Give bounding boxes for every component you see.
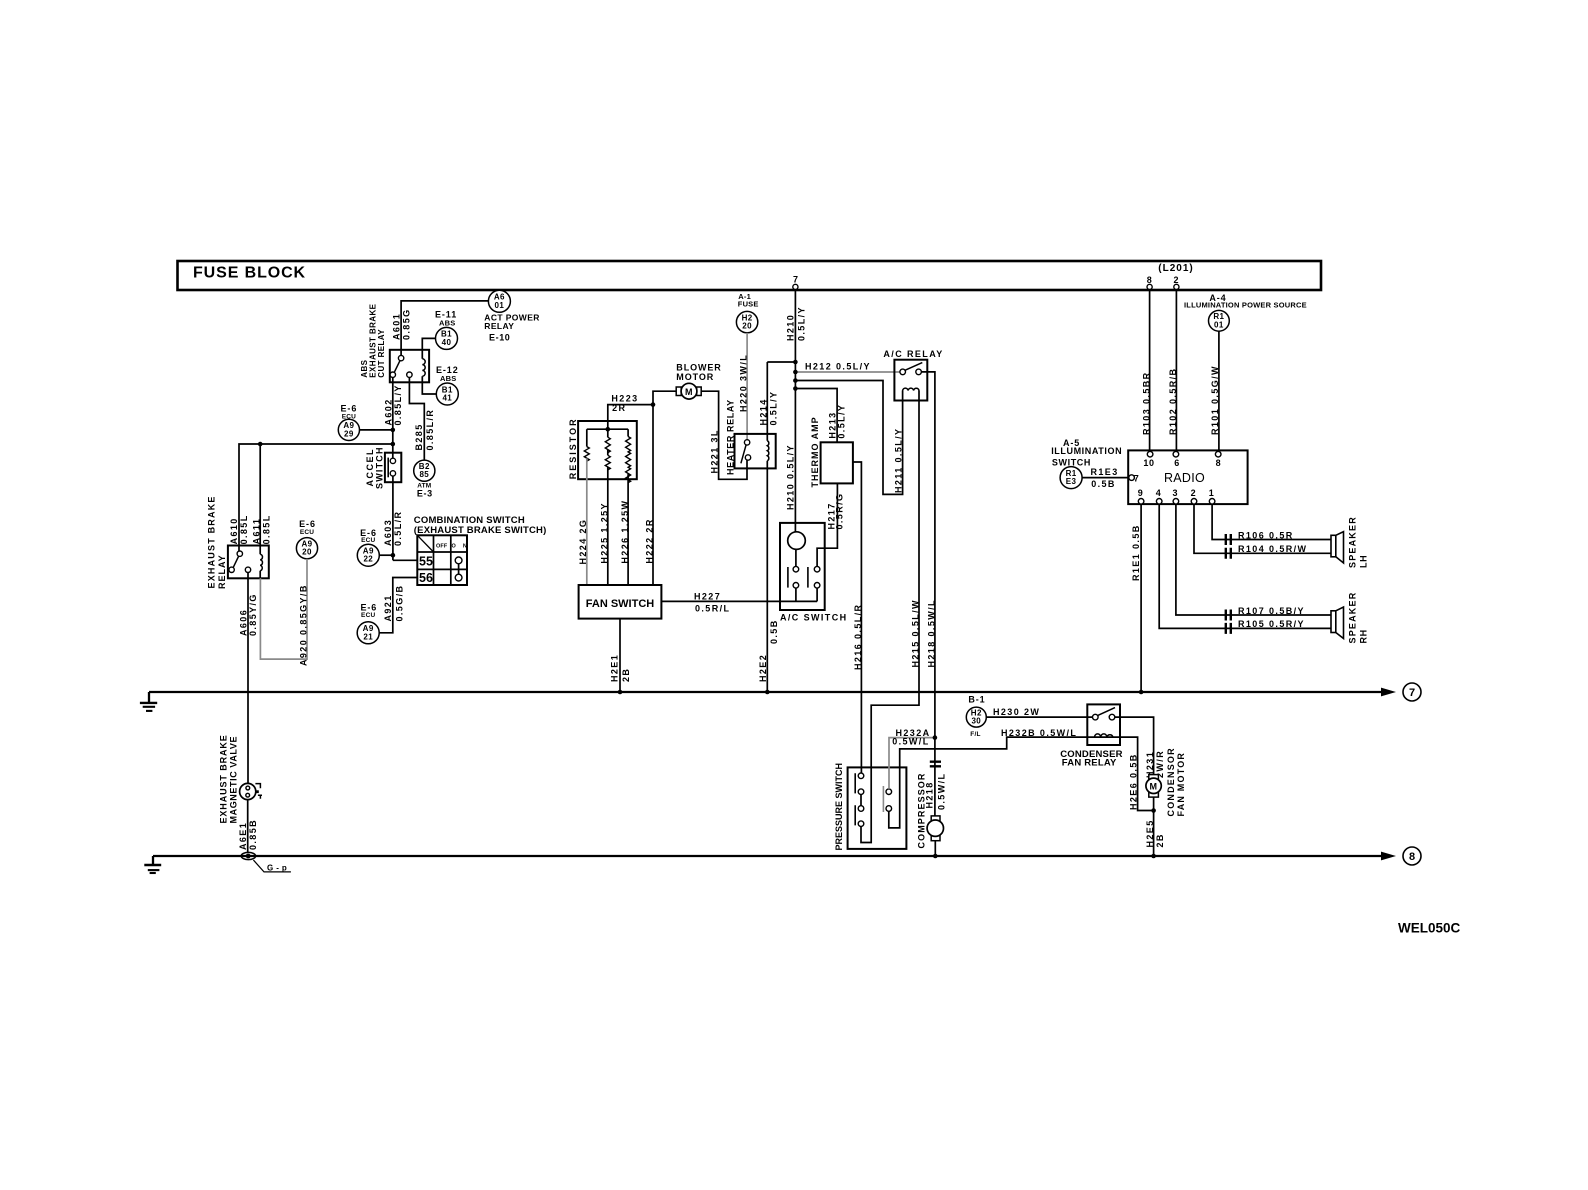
wire H224 2G (578, 458, 588, 585)
svg-text:SPEAKER: SPEAKER (1347, 592, 1357, 644)
switch PRESSURE SWITCH (834, 763, 906, 851)
wire R1E3 0.5B (1082, 467, 1129, 489)
connector R101 circle (1209, 310, 1230, 331)
svg-text:A602: A602 (383, 398, 393, 425)
svg-text:A/C SWITCH: A/C SWITCH (780, 612, 848, 622)
svg-text:R104 0.5R/W: R104 0.5R/W (1238, 544, 1307, 554)
svg-text:0.5L/R: 0.5L/R (393, 511, 403, 546)
svg-text:H224 2G: H224 2G (578, 519, 588, 565)
svg-text:2W/R: 2W/R (1155, 750, 1165, 778)
node A603/A922 (391, 553, 396, 558)
connector A-1 FUSE circle (736, 292, 758, 333)
svg-text:RELAY: RELAY (217, 554, 227, 589)
svg-text:2: 2 (1191, 488, 1197, 498)
wire R105 0.5R/Y (1159, 504, 1331, 629)
node H2E2 ground (765, 690, 770, 695)
svg-text:R102 0.5R/B: R102 0.5R/B (1168, 368, 1178, 435)
node compressor ground (933, 854, 938, 859)
wire H231 2W/R (1115, 717, 1165, 778)
svg-text:ABS: ABS (440, 374, 456, 383)
connector B141 circle (E-12 ABS) (436, 365, 459, 405)
svg-text:8: 8 (1409, 851, 1415, 863)
svg-text:FAN SWITCH: FAN SWITCH (586, 598, 654, 610)
node 8 (1403, 847, 1421, 865)
svg-text:SPEAKER: SPEAKER (1347, 516, 1357, 568)
connector B285 circle (ATM E-3) (414, 460, 435, 499)
svg-text:7: 7 (1409, 687, 1415, 699)
svg-text:01: 01 (1214, 320, 1224, 329)
label ACT POWER RELAY E-10 (484, 313, 540, 343)
connector A920 circle (E-6 ECU) (296, 519, 317, 559)
compressor COMPRESSOR (916, 772, 946, 856)
svg-text:A920 0.85GY/B: A920 0.85GY/B (298, 584, 308, 666)
svg-text:H210 0.5L/Y: H210 0.5L/Y (786, 444, 796, 510)
svg-text:SWITCH: SWITCH (375, 446, 385, 489)
svg-text:56: 56 (419, 571, 433, 585)
node A602 branch (391, 442, 396, 447)
svg-text:MOTOR: MOTOR (676, 372, 714, 382)
svg-text:H227: H227 (694, 592, 721, 602)
svg-text:H215 0.5L/W: H215 0.5L/W (910, 599, 920, 667)
capacitor symbol on H218 (930, 762, 941, 767)
svg-text:ECU: ECU (361, 612, 375, 619)
node H223 (651, 402, 656, 407)
svg-text:1: 1 (1209, 488, 1215, 498)
svg-text:M: M (1150, 781, 1158, 791)
fuse block pin 8 (L201) (1147, 284, 1152, 289)
wire H215 0.5L/W (861, 391, 920, 843)
wire R101 0.5G/W (1210, 331, 1220, 451)
connector A929 circle (E-6 ECU) (338, 403, 359, 440)
wire H226 1.25W (620, 474, 630, 585)
wire R107 0.5B/Y (1176, 504, 1331, 616)
motor BLOWER MOTOR (676, 362, 722, 399)
wire H225 1.25Y (599, 467, 609, 585)
wire A921 0.5G/B (379, 578, 417, 633)
svg-text:LH: LH (1359, 555, 1369, 568)
svg-text:PRESSURE SWITCH: PRESSURE SWITCH (834, 763, 844, 851)
svg-text:ILLUMINATION POWER SOURCE: ILLUMINATION POWER SOURCE (1184, 301, 1307, 310)
svg-text:A601: A601 (392, 313, 402, 340)
svg-text:H230 2W: H230 2W (993, 707, 1040, 717)
svg-text:H220 3W/L: H220 3W/L (738, 354, 748, 412)
svg-text:E-3: E-3 (417, 489, 433, 499)
relay CONDENSER FAN RELAY (1060, 704, 1123, 768)
svg-text:2B: 2B (621, 668, 631, 682)
svg-text:4: 4 (1156, 488, 1162, 498)
svg-text:H2E5: H2E5 (1145, 819, 1155, 847)
svg-text:21: 21 (363, 632, 373, 641)
svg-text:22: 22 (363, 555, 373, 564)
wire H213 0.5L/Y (795, 389, 846, 443)
svg-text:2: 2 (1173, 275, 1179, 285)
svg-text:9: 9 (1138, 488, 1144, 498)
wire R104 0.5R/W (1194, 504, 1331, 554)
wire coil to B140 (422, 338, 435, 358)
wire A922 link (379, 554, 393, 556)
wire A920 0.85GY/B (260, 559, 308, 666)
svg-text:0.5W/L: 0.5W/L (937, 773, 947, 810)
relay EXHAUST BRAKE RELAY (207, 495, 269, 589)
svg-text:0.5W/L: 0.5W/L (892, 736, 929, 746)
ground symbol left of bus 8 (144, 856, 161, 873)
fuse block box (178, 261, 1322, 290)
wire H221 3L (701, 391, 747, 479)
svg-text:H222 2R: H222 2R (645, 518, 655, 563)
svg-text:H214: H214 (759, 398, 769, 425)
svg-text:E-6: E-6 (299, 519, 316, 529)
svg-text:H2E2: H2E2 (758, 654, 768, 682)
svg-text:E-10: E-10 (489, 333, 510, 343)
svg-text:0.85L/Y: 0.85L/Y (393, 384, 403, 425)
relay ABS EXHAUST BRAKE CUT RELAY (360, 303, 429, 382)
wire B285 0.85L/R (409, 377, 435, 460)
svg-text:0.5R/L: 0.5R/L (695, 604, 730, 614)
wire H222 2R (645, 405, 655, 585)
wire A610 0.85L (229, 444, 393, 551)
svg-text:H216 0.5L/R: H216 0.5L/R (853, 604, 863, 670)
connector A921 circle (E-6 ECU) (357, 603, 379, 644)
svg-text:H211 0.5L/Y: H211 0.5L/Y (894, 428, 904, 493)
wire A606 0.85Y/G (238, 573, 258, 784)
wire R102 0.5R/B (1168, 290, 1178, 452)
wire A929 to A602 (360, 429, 393, 431)
svg-text:R1E3: R1E3 (1091, 467, 1119, 477)
svg-text:H2E6 0.5B: H2E6 0.5B (1128, 753, 1138, 810)
wire H223 2R (608, 394, 653, 430)
svg-text:30: 30 (971, 717, 981, 726)
svg-text:01: 01 (495, 301, 505, 310)
svg-text:FAN MOTOR: FAN MOTOR (1176, 752, 1186, 817)
switch FAN SWITCH (579, 585, 662, 619)
svg-text:H218: H218 (925, 781, 935, 808)
connector bars R107 (1226, 610, 1231, 621)
node R1E1 ground (1139, 690, 1144, 695)
wire A603 0.5L/R (383, 476, 417, 560)
label A-5 ILLUMINATION SWITCH (1051, 438, 1122, 468)
connector B140 circle (E-11 ABS) (435, 310, 458, 350)
svg-text:MAGNETIC VALVE: MAGNETIC VALVE (228, 736, 238, 824)
svg-text:M: M (685, 387, 693, 397)
svg-text:ECU: ECU (300, 529, 314, 536)
wire H232A 0.5W/L (889, 728, 935, 789)
wire H220 3W/L (738, 333, 748, 440)
svg-text:ABS: ABS (439, 319, 455, 328)
connector A601 circle (488, 290, 510, 312)
svg-text:FAN RELAY: FAN RELAY (1062, 758, 1117, 769)
connector bars R106 (1226, 534, 1231, 545)
svg-text:R1E1 0.5B: R1E1 0.5B (1131, 524, 1141, 581)
svg-text:R101 0.5G/W: R101 0.5G/W (1210, 365, 1220, 435)
svg-text:B-1: B-1 (968, 695, 985, 705)
relay HEATER RELAY (726, 399, 776, 475)
ground bus 8 (153, 852, 1396, 861)
svg-text:0.85L/R: 0.85L/R (425, 409, 435, 451)
svg-text:H212 0.5L/Y: H212 0.5L/Y (805, 361, 871, 371)
svg-text:7: 7 (1134, 473, 1140, 483)
fuse block pin 7 (793, 275, 799, 290)
node H214 (793, 360, 798, 365)
wire A602 0.85L/Y (383, 377, 403, 458)
svg-text:FUSE: FUSE (738, 300, 759, 309)
node A602/A929 (391, 428, 396, 433)
svg-text:E-6: E-6 (341, 403, 358, 413)
node H213 (793, 386, 798, 391)
svg-text:ILLUMINATION: ILLUMINATION (1051, 446, 1122, 456)
wire blower left to junction (653, 391, 676, 404)
resistor element left (584, 429, 589, 461)
wire R106 0.5R (1212, 504, 1331, 540)
svg-text:85: 85 (419, 470, 429, 479)
switch ACCEL SWITCH (365, 446, 401, 489)
svg-text:A606: A606 (238, 609, 248, 636)
svg-text:2R: 2R (612, 403, 626, 413)
connector A922 circle (E-6 ECU) (357, 528, 379, 566)
node H232A (933, 735, 938, 740)
wire H210 0.5L/Y upper (786, 290, 807, 532)
svg-text:E3: E3 (1066, 477, 1077, 486)
wire A611 0.85L (252, 444, 272, 554)
wire H2E5 2B (1145, 797, 1165, 856)
svg-text:0.85L: 0.85L (261, 514, 271, 544)
svg-text:R107 0.5B/Y: R107 0.5B/Y (1238, 606, 1305, 616)
node H2E5 ground (1151, 854, 1156, 859)
svg-text:0.85G: 0.85G (402, 308, 412, 340)
svg-text:R106 0.5R: R106 0.5R (1238, 530, 1294, 540)
svg-text:FUSE BLOCK: FUSE BLOCK (193, 265, 306, 282)
svg-text:20: 20 (302, 548, 312, 557)
svg-text:N: N (463, 544, 467, 550)
svg-text:10: 10 (1143, 458, 1154, 468)
wire H218 0.5W/L (921, 372, 936, 816)
wire H232B 0.5W/L (889, 728, 1154, 828)
svg-text:0.85Y/G: 0.85Y/G (248, 593, 258, 636)
svg-text:40: 40 (442, 338, 452, 347)
switch A/C SWITCH (780, 523, 848, 622)
svg-text:A610: A610 (229, 517, 239, 544)
speaker SPEAKER LH (1331, 516, 1369, 568)
wire coil to B141 (422, 376, 436, 394)
svg-text:H2E1: H2E1 (609, 654, 619, 682)
wire H230 2W (986, 707, 1092, 717)
resistor element middle (605, 429, 610, 470)
svg-text:H210: H210 (786, 314, 796, 341)
svg-text:EXHAUST BRAKE: EXHAUST BRAKE (207, 495, 217, 588)
ground symbol left of bus 7 (140, 692, 157, 711)
svg-text:7: 7 (793, 275, 799, 285)
svg-text:R103 0.5BR: R103 0.5BR (1142, 371, 1152, 435)
svg-text:A6E1: A6E1 (238, 822, 248, 850)
svg-text:0.5R/G: 0.5R/G (834, 493, 844, 530)
node H212 (793, 370, 798, 375)
svg-text:0.5L/Y: 0.5L/Y (837, 404, 847, 439)
svg-text:A611: A611 (252, 518, 262, 545)
node G-p ground point (241, 852, 291, 872)
svg-text:EXHAUST BRAKE: EXHAUST BRAKE (218, 734, 228, 823)
svg-text:H218 0.5W/L: H218 0.5W/L (927, 599, 937, 667)
node A611 branch (258, 442, 263, 447)
svg-text:0.85L: 0.85L (239, 514, 249, 544)
speaker SPEAKER RH (1331, 592, 1369, 644)
resistor block RESISTOR (568, 417, 637, 479)
wire H212 0.5L/Y (795, 361, 900, 372)
wire H2E2 0.5B (758, 461, 779, 692)
svg-text:CUT RELAY: CUT RELAY (377, 329, 386, 378)
node 7 (1403, 683, 1421, 701)
svg-text:29: 29 (344, 429, 354, 438)
connector L201 label (1147, 263, 1194, 285)
wire H214 0.5L/Y (759, 362, 796, 441)
svg-text:R105 0.5R/Y: R105 0.5R/Y (1238, 619, 1305, 629)
label A-4 ILLUMINATION POWER SOURCE (1184, 293, 1307, 310)
svg-text:B285: B285 (414, 423, 424, 450)
svg-text:A/C RELAY: A/C RELAY (883, 349, 943, 359)
svg-text:F/L: F/L (970, 731, 980, 738)
ground bus 7 (149, 688, 1396, 697)
svg-text:55: 55 (419, 555, 433, 569)
svg-text:8: 8 (1147, 275, 1153, 285)
svg-text:8: 8 (1216, 458, 1222, 468)
svg-text:0.5B: 0.5B (1091, 479, 1116, 489)
svg-text:A603: A603 (383, 519, 393, 546)
wire A6E1 0.85B (238, 800, 258, 853)
wire H2E1 2B (609, 619, 631, 692)
amp THERMO AMP (810, 416, 853, 487)
svg-text:RH: RH (1359, 629, 1369, 643)
svg-text:RESISTOR: RESISTOR (568, 417, 578, 479)
connector B-1 circle (966, 695, 986, 739)
node H2E1 ground (618, 690, 623, 695)
svg-text:ECU: ECU (361, 537, 375, 544)
wire H227 0.5R/L (661, 592, 817, 614)
svg-text:41: 41 (442, 394, 452, 403)
svg-text:BLOWER: BLOWER (676, 362, 721, 372)
node H211 (793, 378, 798, 383)
wire R103 0.5BR (1142, 290, 1152, 452)
wire H216 0.5L/R (853, 462, 863, 773)
svg-text:THERMO AMP: THERMO AMP (810, 416, 820, 487)
svg-text:CONDENSOR: CONDENSOR (1166, 747, 1176, 816)
radio RADIO (1128, 450, 1247, 504)
svg-text:WEL050C: WEL050C (1398, 921, 1461, 936)
svg-text:H221 3L: H221 3L (710, 429, 720, 473)
connector bars R104 (1226, 548, 1231, 559)
svg-text:3: 3 (1172, 488, 1178, 498)
svg-text:OFF: OFF (436, 544, 448, 550)
svg-text:G - p: G - p (267, 863, 287, 872)
svg-text:A921: A921 (383, 594, 393, 621)
svg-text:0.5B: 0.5B (769, 619, 779, 644)
wire A601 0.85G (392, 301, 489, 356)
svg-text:H225 1.25Y: H225 1.25Y (599, 502, 609, 564)
svg-text:H223: H223 (611, 394, 638, 404)
valve EXHAUST BRAKE MAGNETIC VALVE (218, 734, 262, 823)
svg-text:H232B 0.5W/L: H232B 0.5W/L (1001, 728, 1077, 738)
svg-text:O: O (452, 544, 457, 550)
wire H211 0.5L/Y (795, 381, 903, 495)
svg-text:HEATER RELAY: HEATER RELAY (726, 399, 736, 475)
switch COMBINATION SWITCH (EXHAUST BRAKE SWITCH) (414, 515, 547, 585)
svg-text:(L201): (L201) (1158, 263, 1193, 274)
svg-text:0.85B: 0.85B (248, 819, 258, 850)
wire H217 0.5R/G (817, 483, 844, 566)
svg-text:H226 1.25W: H226 1.25W (620, 500, 630, 564)
svg-text:0.5L/Y: 0.5L/Y (796, 306, 806, 341)
svg-text:RADIO: RADIO (1164, 471, 1205, 485)
wire R1E1 0.5B (1131, 504, 1141, 692)
svg-text:0.5L/Y: 0.5L/Y (768, 391, 778, 426)
svg-text:2B: 2B (1155, 833, 1165, 847)
fuse block pin 2 (L201) (1174, 284, 1179, 289)
node H2E6 junction (1151, 808, 1156, 813)
svg-text:0.5G/B: 0.5G/B (395, 585, 405, 622)
resistor element right (626, 429, 631, 483)
svg-text:RELAY: RELAY (484, 321, 514, 331)
relay A/C RELAY (883, 349, 943, 401)
connector R1E3 circle (1060, 467, 1082, 489)
connector bars R105 (1226, 623, 1231, 634)
svg-text:6: 6 (1174, 458, 1180, 468)
node resistor top (606, 427, 611, 432)
motor CONDENSOR FAN MOTOR (1146, 747, 1186, 816)
svg-text:20: 20 (742, 322, 752, 331)
